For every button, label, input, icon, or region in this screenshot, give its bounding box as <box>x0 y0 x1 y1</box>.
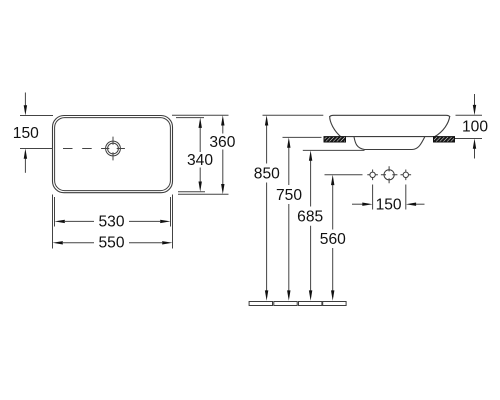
dim 685 extension line <box>303 149 365 151</box>
basin top view inner rim <box>55 118 171 191</box>
dim 150 extension line top <box>20 115 53 117</box>
dim 150 right arrows <box>352 203 363 205</box>
svg-text:100: 100 <box>462 118 488 135</box>
dim 850 dimension line <box>266 120 268 298</box>
floor bar segment 4 <box>323 302 346 306</box>
dim 340 extension lines <box>176 118 205 192</box>
svg-text:150: 150 <box>13 125 39 142</box>
basin top view outer rim <box>53 116 173 193</box>
side view rim top <box>330 115 450 117</box>
dim 530 dimension line <box>65 220 160 222</box>
dim 100 arrow above <box>474 94 476 111</box>
dim 750 dimension line <box>288 142 290 298</box>
countertop edge line <box>346 136 434 138</box>
svg-text:360: 360 <box>209 134 235 151</box>
svg-text:560: 560 <box>320 231 346 248</box>
dim 100 extension lines <box>455 115 482 138</box>
dim 550 dimension line <box>63 242 162 244</box>
svg-text:750: 750 <box>276 187 302 204</box>
floor bar segment 1 <box>249 302 272 306</box>
dim 150 arrow below <box>24 153 26 173</box>
countertop section hatch right <box>434 137 455 142</box>
side view right outer wall <box>434 116 450 137</box>
drain hole outer circle <box>106 141 121 156</box>
svg-text:150: 150 <box>376 197 402 214</box>
dim 360 extension lines <box>172 115 229 194</box>
floor bar segment 2 <box>274 302 297 306</box>
dim 360 dimension line <box>222 119 224 191</box>
dim 150 arrow above <box>24 93 26 112</box>
svg-text:530: 530 <box>98 214 124 231</box>
floor bar segment 3 <box>299 302 322 306</box>
svg-text:340: 340 <box>187 152 213 169</box>
dim 150 right extension lines below faucet holes <box>373 185 406 210</box>
countertop section hatch left <box>324 137 346 142</box>
faucet hole small right symbol <box>403 172 408 177</box>
drain center mark ticks <box>101 137 125 161</box>
svg-text:850: 850 <box>254 166 280 183</box>
dim 750 extension line <box>283 136 322 138</box>
side view left outer wall <box>330 116 341 137</box>
svg-text:685: 685 <box>297 209 323 226</box>
dim 560 dimension line <box>332 179 334 297</box>
faucet hole small left symbol <box>370 172 375 177</box>
dim 560 extension line <box>325 174 363 176</box>
svg-text:550: 550 <box>98 234 124 251</box>
dim 530 extension lines <box>55 197 171 227</box>
drain hole inner circle <box>108 143 119 154</box>
dim 685 dimension line <box>310 155 312 298</box>
basin underside bowl below counter <box>354 137 425 150</box>
dim 100 arrow below <box>474 143 476 159</box>
dim 340 dimension line <box>199 122 201 189</box>
dim 550 extension lines <box>53 195 173 249</box>
drain centerline dashed <box>63 148 101 150</box>
faucet hole center symbol <box>384 170 394 180</box>
dim 850 extension line <box>263 114 324 116</box>
dim 150 extension line at centerline <box>20 148 53 150</box>
